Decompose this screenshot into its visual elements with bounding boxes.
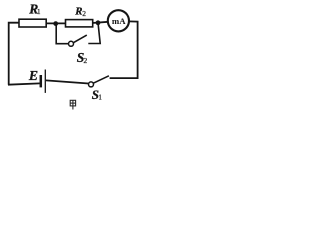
svg-text:2: 2 [83, 56, 87, 65]
svg-text:1: 1 [37, 8, 41, 16]
svg-text:R: R [74, 5, 82, 17]
svg-text:1: 1 [98, 93, 102, 101]
svg-text:E: E [28, 68, 38, 83]
svg-text:2: 2 [82, 9, 86, 18]
svg-text:mA: mA [112, 16, 126, 26]
